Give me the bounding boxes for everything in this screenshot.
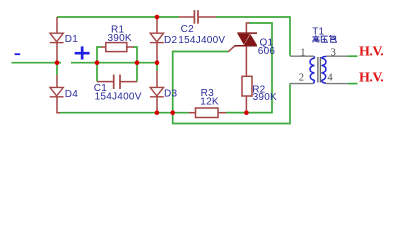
wire C1 left riser (96, 63, 98, 82)
diode D1 (50, 33, 64, 42)
terminal minus (15, 53, 21, 55)
wire D4 cathode lead to bottom rail corner (57, 97, 60, 113)
svg-text:606: 606 (258, 46, 276, 57)
wire transformer pin3 output (348, 55, 358, 57)
wire Q1 anode lead (246, 23, 249, 33)
svg-text:H.V.: H.V. (359, 45, 383, 60)
wire top rail from D1 to C2 (57, 16, 179, 18)
capacitor C2 (194, 10, 198, 24)
wire D1 cathode lead (56, 43, 58, 63)
svg-text:H.V.: H.V. (359, 71, 383, 86)
wire C2 right to transformer pin1 drop (216, 17, 290, 56)
char gao (312, 35, 319, 42)
wire C2 left lead (179, 16, 194, 18)
wire D3 top stub (156, 63, 158, 71)
wire R1 left lead (101, 46, 106, 48)
svg-text:4: 4 (327, 73, 333, 84)
wire D2 cathode lead (156, 43, 158, 63)
wire R2 bottom lead (245, 96, 247, 113)
junction dot bottom rail R2 (244, 110, 249, 115)
resistor R1 (106, 43, 127, 52)
wire R3 right lead (218, 112, 226, 114)
svg-text:154J400V: 154J400V (178, 35, 225, 46)
char ya (321, 36, 328, 42)
wire R3 left lead (189, 112, 196, 114)
transformer T1 pin3 lead (326, 55, 347, 57)
transformer T1 secondary winding (321, 56, 326, 83)
terminal plus (75, 46, 90, 59)
junction dot node minus/D1 (55, 60, 60, 65)
wire transformer pin4 output (348, 83, 358, 85)
wire D4 top stub (56, 63, 58, 75)
svg-text:C2: C2 (181, 24, 194, 35)
wire D3 cathode lead (156, 97, 158, 113)
char bao (329, 35, 336, 42)
wire C1 right lead (121, 81, 137, 83)
diode D3 (150, 87, 164, 96)
wire plus input rail (71, 62, 157, 64)
svg-text:1: 1 (300, 47, 305, 58)
wire D2 anode lead (156, 17, 158, 33)
junction dot bottom rail D3 (155, 110, 160, 115)
wire bottom rail (60, 112, 190, 114)
svg-text:2: 2 (299, 73, 304, 84)
svg-text:390K: 390K (253, 92, 277, 103)
wire D3 anode lead (156, 71, 158, 88)
resistor R2 (242, 76, 252, 96)
transformer T1 pin4 lead (326, 83, 348, 85)
junction dot node R1/C1 right (135, 60, 140, 65)
wire D1 anode lead (56, 17, 58, 33)
wire gate net and transformer pin2 return (173, 52, 290, 124)
junction dot top rail D2 (155, 15, 160, 20)
wire R1 left riser (97, 47, 102, 63)
wire minus input (12, 62, 62, 64)
wire Q1 anode jumper to right column (226, 23, 272, 113)
transformer T1 pin1 lead (290, 55, 314, 57)
junction dot node D2/D3 (155, 60, 160, 65)
diode D2 (150, 33, 164, 42)
wire C2 right lead (199, 16, 216, 18)
svg-text:154J400V: 154J400V (95, 92, 142, 103)
transformer T1 core (318, 57, 321, 83)
svg-text:3: 3 (331, 47, 336, 58)
wire C1 left lead (97, 81, 113, 83)
junction dot bottom rail gate (170, 110, 175, 115)
transformer T1 pin2 lead (289, 83, 313, 85)
transformer T1 primary winding (310, 56, 315, 83)
triac Q1 (235, 33, 258, 46)
wire R1 right riser (133, 47, 137, 63)
junction dot node plus/R1 (95, 60, 100, 65)
wire Q1 gate diagonal (228, 46, 235, 52)
svg-text:390K: 390K (108, 33, 132, 44)
svg-text:D1: D1 (65, 34, 78, 45)
wire R1 right lead (127, 46, 134, 48)
svg-text:D4: D4 (65, 89, 78, 100)
wire Q1 cathode lead to R2 (245, 47, 247, 77)
wire C1 right riser (136, 63, 138, 82)
svg-text:D3: D3 (164, 89, 177, 100)
diode D4 (50, 87, 64, 96)
svg-text:12K: 12K (200, 97, 219, 108)
resistor R3 (196, 108, 219, 118)
label T1 Chinese gao ya bao (high voltage pack) (312, 35, 336, 42)
svg-text:D2: D2 (164, 35, 177, 46)
wire D4 anode lead (56, 75, 58, 87)
wire bottom rail right part (226, 112, 272, 114)
capacitor C1 (114, 75, 120, 90)
